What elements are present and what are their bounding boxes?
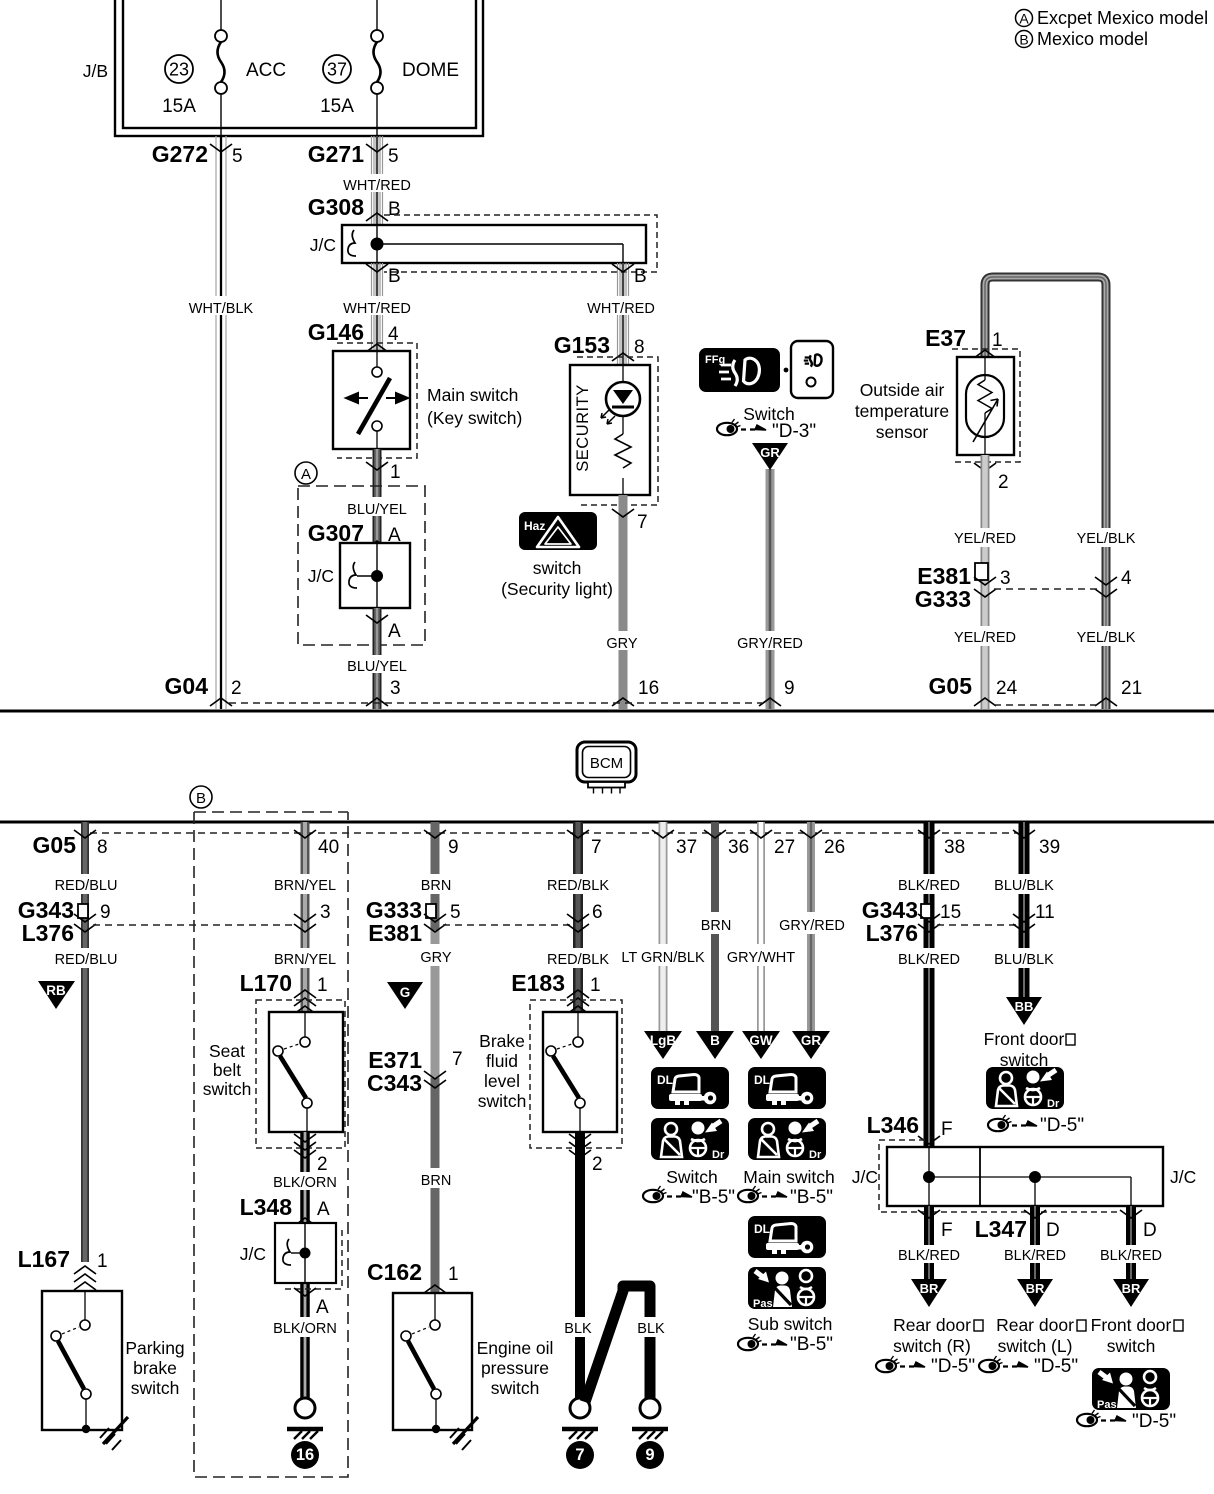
svg-text:BRN: BRN [421,1173,452,1189]
svg-text:27: 27 [774,837,795,858]
svg-text:switch: switch [533,558,582,578]
svg-text:BLU/YEL: BLU/YEL [347,659,407,675]
svg-text:E381: E381 [368,920,422,946]
svg-text:ACC: ACC [246,60,286,81]
svg-text:7: 7 [637,512,648,533]
svg-text:YEL/RED: YEL/RED [954,630,1016,646]
svg-text:Haz: Haz [524,519,545,533]
svg-text:BLK/ORN: BLK/ORN [273,1321,337,1337]
svg-text:1: 1 [390,462,401,483]
svg-text:A: A [301,466,311,483]
svg-text:switch: switch [1107,1336,1156,1356]
svg-text:Parking: Parking [125,1338,184,1358]
svg-text:L346: L346 [867,1112,919,1138]
svg-text:40: 40 [318,837,339,858]
svg-text:L170: L170 [240,970,292,996]
svg-text:LT GRN/BLK: LT GRN/BLK [621,950,705,966]
svg-text:RED/BLK: RED/BLK [547,878,609,894]
svg-text:B: B [388,199,401,220]
svg-text:L347: L347 [975,1216,1027,1242]
svg-text:4: 4 [388,324,399,345]
svg-text:G05: G05 [929,673,973,699]
svg-text:1: 1 [317,975,328,996]
svg-text:DOME: DOME [402,60,459,81]
svg-text:BLK/RED: BLK/RED [1100,1248,1162,1264]
svg-text:36: 36 [728,837,749,858]
svg-text:16: 16 [296,1446,314,1464]
svg-text:BB: BB [1015,999,1034,1014]
svg-text:brake: brake [133,1358,177,1378]
svg-text:BR: BR [1122,1281,1141,1296]
svg-text:"B-5": "B-5" [692,1187,735,1208]
svg-text:BR: BR [1026,1281,1045,1296]
svg-text:E183: E183 [511,970,565,996]
svg-text:fluid: fluid [486,1051,518,1071]
svg-text:switch (R): switch (R) [893,1336,971,1356]
svg-text:L376: L376 [22,920,74,946]
svg-text:3: 3 [1000,568,1011,589]
svg-text:WHT/RED: WHT/RED [343,178,411,194]
svg-text:RED/BLK: RED/BLK [547,952,609,968]
svg-text:J/C: J/C [310,235,336,255]
svg-text:GR: GR [801,1033,822,1048]
svg-text:B: B [388,266,401,287]
svg-text:2: 2 [317,1154,328,1175]
svg-text:4: 4 [1121,568,1132,589]
svg-text:37: 37 [327,60,347,80]
svg-text:G05: G05 [33,832,77,858]
svg-text:Front door: Front door [984,1029,1065,1049]
svg-text:5: 5 [388,146,399,167]
svg-text:switch: switch [478,1091,527,1111]
svg-text:J/C: J/C [852,1167,878,1187]
svg-text:1: 1 [992,330,1003,351]
svg-text:GW: GW [749,1033,773,1048]
svg-text:YEL/BLK: YEL/BLK [1077,531,1136,547]
svg-text:Outside air: Outside air [860,380,945,400]
svg-text:"D-5": "D-5" [931,1356,975,1377]
svg-text:GRY: GRY [606,636,637,652]
svg-text:"D-5": "D-5" [1132,1411,1176,1432]
svg-text:Excpet Mexico model: Excpet Mexico model [1037,8,1208,28]
svg-text:Main switch: Main switch [743,1167,834,1187]
svg-text:G271: G271 [308,141,364,167]
svg-text:G308: G308 [308,194,364,220]
svg-text:8: 8 [634,337,645,358]
svg-text:BLK/RED: BLK/RED [898,952,960,968]
svg-text:7: 7 [591,837,602,858]
svg-text:BRN: BRN [701,918,732,934]
svg-text:J/C: J/C [240,1244,266,1264]
svg-text:GR: GR [760,445,780,460]
svg-text:5: 5 [450,902,461,923]
svg-text:GRY: GRY [420,950,451,966]
svg-text:3: 3 [320,902,331,923]
svg-text:G153: G153 [554,332,610,358]
svg-text:A: A [1019,11,1029,27]
svg-text:2: 2 [998,472,1009,493]
svg-text:1: 1 [448,1264,459,1285]
svg-text:(Key switch): (Key switch) [427,408,522,428]
svg-text:L348: L348 [240,1194,293,1220]
svg-text:C343: C343 [367,1070,422,1096]
svg-text:"D-5": "D-5" [1034,1356,1078,1377]
svg-text:Seat: Seat [209,1041,245,1061]
svg-text:BCM: BCM [590,755,623,772]
svg-text:BLU/BLK: BLU/BLK [994,878,1054,894]
svg-text:SECURITY: SECURITY [574,384,592,471]
svg-text:belt: belt [213,1060,241,1080]
svg-text:11: 11 [1035,902,1055,923]
svg-text:BRN/YEL: BRN/YEL [274,952,336,968]
svg-text:J/C: J/C [308,566,334,586]
svg-text:pressure: pressure [481,1358,549,1378]
svg-text:"B-5": "B-5" [790,1334,833,1355]
svg-text:WHT/RED: WHT/RED [343,301,411,317]
svg-text:WHT/BLK: WHT/BLK [189,301,254,317]
svg-text:BR: BR [920,1281,939,1296]
svg-text:YEL/BLK: YEL/BLK [1077,630,1136,646]
svg-text:B: B [634,266,647,287]
svg-text:Main switch: Main switch [427,385,518,405]
svg-text:26: 26 [824,837,845,858]
svg-text:"B-5": "B-5" [790,1187,833,1208]
svg-text:Brake: Brake [479,1031,525,1051]
svg-text:Sub switch: Sub switch [748,1314,833,1334]
svg-text:Front door: Front door [1091,1315,1172,1335]
svg-text:GRY/RED: GRY/RED [737,636,803,652]
svg-text:BRN/YEL: BRN/YEL [274,878,336,894]
svg-text:1: 1 [590,975,601,996]
svg-text:F: F [941,1220,953,1241]
svg-text:WHT/RED: WHT/RED [587,301,655,317]
svg-text:B: B [710,1033,720,1048]
svg-text:E37: E37 [925,325,966,351]
svg-text:9: 9 [448,837,459,858]
svg-text:Engine oil: Engine oil [477,1338,554,1358]
svg-text:J/C: J/C [1170,1167,1196,1187]
svg-text:BLU/YEL: BLU/YEL [347,502,407,518]
svg-text:RB: RB [46,983,66,998]
svg-text:D: D [1143,1220,1157,1241]
svg-text:LgB: LgB [650,1033,676,1048]
svg-text:"D-3": "D-3" [772,421,816,442]
svg-text:9: 9 [784,678,795,699]
svg-text:switch: switch [203,1079,252,1099]
svg-text:temperature: temperature [855,401,949,421]
svg-text:A: A [388,621,401,642]
svg-text:BLK/ORN: BLK/ORN [273,1175,337,1191]
svg-text:YEL/RED: YEL/RED [954,531,1016,547]
svg-text:J/B: J/B [83,61,108,81]
svg-text:37: 37 [676,837,697,858]
svg-text:7: 7 [452,1049,463,1070]
svg-text:RED/BLU: RED/BLU [55,952,118,968]
svg-text:24: 24 [996,678,1018,699]
svg-text:G333: G333 [915,586,971,612]
svg-text:switch: switch [131,1378,180,1398]
svg-text:A: A [316,1297,329,1318]
svg-text:GRY/RED: GRY/RED [779,918,845,934]
svg-text:G272: G272 [152,141,208,167]
svg-text:15A: 15A [162,96,196,117]
svg-text:BLK/RED: BLK/RED [898,1248,960,1264]
svg-text:Rear door: Rear door [996,1315,1074,1335]
svg-text:L167: L167 [18,1246,70,1272]
svg-text:BLK: BLK [564,1321,592,1337]
svg-text:(Security light): (Security light) [501,579,613,599]
svg-text:RED/BLU: RED/BLU [55,878,118,894]
svg-text:switch (L): switch (L) [998,1336,1073,1356]
svg-text:2: 2 [592,1154,603,1175]
svg-text:3: 3 [390,678,401,699]
svg-text:2: 2 [231,678,242,699]
svg-text:BLK/RED: BLK/RED [1004,1248,1066,1264]
svg-text:G: G [400,985,411,1000]
svg-text:BLK/RED: BLK/RED [898,878,960,894]
svg-text:switch: switch [491,1378,540,1398]
svg-text:39: 39 [1039,837,1060,858]
svg-text:C162: C162 [367,1259,422,1285]
svg-text:7: 7 [575,1446,584,1464]
svg-text:A: A [317,1199,330,1220]
svg-text:sensor: sensor [876,422,929,442]
svg-text:"D-5": "D-5" [1040,1115,1084,1136]
svg-text:23: 23 [169,60,189,80]
svg-text:B: B [1019,32,1028,48]
svg-text:L376: L376 [866,920,918,946]
svg-text:15: 15 [940,902,961,923]
svg-text:D: D [1046,1220,1060,1241]
svg-text:BLU/BLK: BLU/BLK [994,952,1054,968]
svg-text:15A: 15A [320,96,354,117]
svg-text:level: level [484,1071,520,1091]
svg-text:8: 8 [97,837,108,858]
svg-text:6: 6 [592,902,603,923]
svg-text:G04: G04 [165,673,209,699]
svg-text:G146: G146 [308,319,364,345]
svg-text:16: 16 [638,678,659,699]
svg-text:BRN: BRN [421,878,452,894]
svg-text:Switch: Switch [666,1167,718,1187]
svg-text:5: 5 [232,146,243,167]
svg-text:21: 21 [1121,678,1142,699]
svg-text:9: 9 [645,1446,654,1464]
svg-text:Rear door: Rear door [893,1315,971,1335]
svg-text:GRY/WHT: GRY/WHT [727,950,795,966]
svg-text:Mexico model: Mexico model [1037,29,1148,49]
svg-text:38: 38 [944,837,965,858]
svg-text:BLK: BLK [637,1321,665,1337]
svg-text:1: 1 [97,1251,108,1272]
svg-text:B: B [196,790,206,807]
svg-text:F: F [941,1119,953,1140]
svg-text:9: 9 [100,902,111,923]
